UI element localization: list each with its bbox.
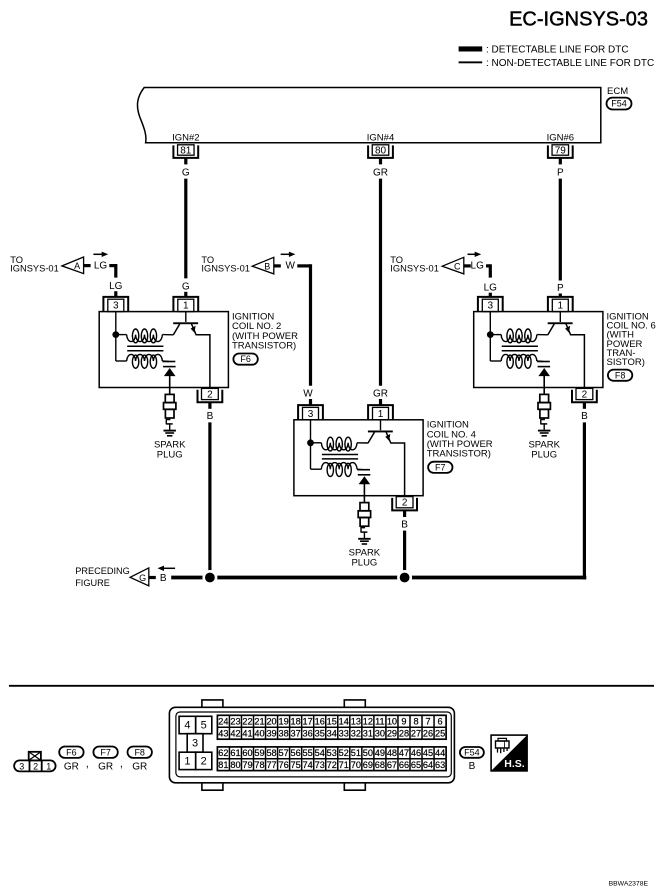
svg-text:75: 75: [291, 760, 301, 770]
secondary winding, coil No.6: [490, 360, 501, 362]
legend: detectable line for DTC: [459, 46, 483, 51]
svg-text:32: 32: [351, 729, 361, 739]
svg-text:F54: F54: [464, 747, 480, 757]
svg-text:13: 13: [351, 717, 361, 727]
wire stub into coil No.6 pin 3: [489, 293, 492, 297]
transformer core, coil No.2: [127, 345, 163, 347]
svg-text:: DETECTABLE LINE FOR DTC: : DETECTABLE LINE FOR DTC: [486, 44, 629, 55]
svg-text:72: 72: [327, 760, 337, 770]
svg-text:2: 2: [33, 761, 38, 771]
svg-text:2: 2: [582, 389, 588, 400]
svg-text:3: 3: [192, 738, 198, 750]
connector F7 label: [428, 462, 452, 473]
wire stub at connector C: [464, 264, 471, 267]
tiny connector sketch in H.S. icon: [496, 741, 510, 748]
svg-text:46: 46: [411, 748, 421, 758]
svg-text:IGN#6: IGN#6: [547, 132, 574, 143]
svg-text:34: 34: [327, 729, 337, 739]
svg-text:GR: GR: [373, 167, 388, 178]
ECM connector F54 housing: [169, 707, 454, 783]
direction arrow at connector C: [468, 253, 477, 255]
wire LG: connector C to coil No.6 pin 3: [489, 264, 492, 277]
svg-text:5: 5: [201, 720, 207, 732]
wire B: coil No.6 pin 2 to ground bus: [583, 422, 586, 579]
svg-text:W: W: [285, 260, 295, 271]
ECM connector pin grid group 2: [217, 747, 446, 771]
svg-text:26: 26: [423, 729, 433, 739]
svg-text:61: 61: [230, 748, 240, 758]
svg-text:G: G: [182, 281, 190, 292]
svg-text:LG: LG: [484, 282, 498, 293]
transformer core, coil No.4: [322, 454, 358, 456]
svg-text:47: 47: [399, 748, 409, 758]
housing tab (bottom): [344, 783, 365, 790]
coil No.4 pin 2: [392, 498, 417, 511]
coil No.2 pin 3: [103, 297, 128, 312]
wire gap-to-spark-plug, coil No.2: [169, 375, 171, 395]
wire stub below coil No.4 pin 2: [403, 510, 406, 517]
svg-text:TRANSISTOR): TRANSISTOR): [232, 341, 296, 352]
svg-text:65: 65: [411, 760, 421, 770]
wire stub below coil No.6 pin 2: [583, 402, 586, 409]
svg-text:PLUG: PLUG: [531, 449, 557, 460]
coil No.4 pin 1: [368, 405, 393, 420]
coil No.2 pin 1: [173, 297, 198, 312]
svg-text:G: G: [182, 167, 190, 178]
svg-text:79: 79: [555, 145, 567, 156]
svg-text:62: 62: [218, 748, 228, 758]
svg-text:PLUG: PLUG: [351, 557, 377, 568]
svg-text:60: 60: [242, 748, 252, 758]
svg-text:56: 56: [291, 748, 301, 758]
svg-text:ECM: ECM: [607, 86, 628, 97]
svg-text:80: 80: [230, 760, 240, 770]
svg-text:22: 22: [242, 717, 252, 727]
wire elbow from connector A: [109, 264, 116, 267]
wire stub below ECM pin 81: [184, 158, 187, 165]
svg-text:A: A: [74, 261, 80, 271]
svg-text:59: 59: [254, 748, 264, 758]
svg-text:25: 25: [435, 729, 445, 739]
svg-text:B: B: [264, 261, 270, 271]
svg-text:67: 67: [387, 760, 397, 770]
svg-text:1: 1: [46, 761, 51, 771]
spark plug, coil No.4: [360, 503, 369, 511]
primary winding, coil No.2: [116, 334, 127, 336]
svg-text:18: 18: [291, 717, 301, 727]
svg-text:55: 55: [303, 748, 313, 758]
svg-text:1: 1: [378, 409, 384, 420]
svg-text:64: 64: [423, 760, 433, 770]
wire B: coil No.4 pin 2 to ground bus: [403, 531, 406, 576]
svg-text:44: 44: [435, 748, 445, 758]
svg-text:53: 53: [327, 748, 337, 758]
svg-text:B: B: [401, 519, 408, 530]
svg-text:,: ,: [86, 758, 89, 770]
svg-text:63: 63: [435, 760, 445, 770]
svg-text:30: 30: [375, 729, 385, 739]
svg-text:12: 12: [363, 717, 373, 727]
svg-text:79: 79: [242, 760, 252, 770]
svg-text:H.S.: H.S.: [504, 758, 525, 770]
svg-text:3: 3: [113, 301, 119, 312]
svg-text:19: 19: [278, 717, 288, 727]
housing inner wall: [176, 712, 451, 777]
svg-text:77: 77: [266, 760, 276, 770]
coil No.6 pin 1: [548, 297, 573, 312]
svg-text:28: 28: [399, 729, 409, 739]
svg-text:IGNSYS-01: IGNSYS-01: [10, 264, 59, 274]
svg-text:10: 10: [387, 717, 397, 727]
svg-text:36: 36: [303, 729, 313, 739]
svg-text:51: 51: [351, 748, 361, 758]
svg-text:F8: F8: [615, 370, 626, 380]
svg-text:66: 66: [399, 760, 409, 770]
wire stub into coil No.4 pin 3: [309, 399, 312, 405]
wire stub into coil No.6 pin 1: [559, 294, 562, 298]
connector F54 label (bottom): [460, 747, 484, 758]
svg-text:FIGURE: FIGURE: [75, 578, 110, 588]
svg-text:B: B: [207, 411, 214, 422]
svg-text:58: 58: [266, 748, 276, 758]
svg-text:45: 45: [423, 748, 433, 758]
coil No.6 pin 2: [572, 390, 597, 403]
svg-text:40: 40: [254, 729, 264, 739]
svg-text:54: 54: [315, 748, 325, 758]
svg-text:6: 6: [438, 717, 443, 727]
svg-text:27: 27: [411, 729, 421, 739]
svg-text:81: 81: [180, 145, 192, 156]
junction: coil No.4 B wire on bus: [398, 571, 410, 583]
internal wire from pin 3, coil No.2: [115, 312, 117, 361]
ignition coil No. 6 (F8) box: [474, 312, 603, 388]
svg-text:78: 78: [254, 760, 264, 770]
svg-text:3: 3: [488, 301, 494, 312]
svg-text:G: G: [139, 573, 146, 583]
wire gap-to-spark-plug, coil No.4: [363, 483, 365, 503]
svg-text:69: 69: [363, 760, 373, 770]
direction arrow at connector A: [93, 253, 103, 255]
svg-text:73: 73: [315, 760, 325, 770]
svg-text:P: P: [557, 283, 564, 294]
spark gap, coil No.2: [163, 361, 176, 363]
spark plug, coil No.2: [165, 394, 174, 402]
wire stub below ECM pin 79: [559, 158, 562, 165]
connector F8 label: [608, 370, 632, 381]
svg-text:20: 20: [266, 717, 276, 727]
svg-text:SISTOR): SISTOR): [607, 357, 645, 368]
power transistor, coil No.4: [380, 420, 382, 430]
ECM box: [137, 88, 600, 143]
svg-text:74: 74: [303, 760, 313, 770]
ground (spark plug No.2): [164, 430, 176, 432]
svg-text:PLUG: PLUG: [157, 449, 183, 460]
svg-text:35: 35: [315, 729, 325, 739]
svg-text:31: 31: [363, 729, 373, 739]
svg-text:F7: F7: [100, 747, 111, 757]
svg-text:P: P: [557, 167, 564, 178]
internal wire from pin 3, coil No.4: [310, 420, 312, 469]
ECM connector pins 1-5 block: [179, 716, 196, 733]
emitter arrow, coil No.2: [191, 326, 196, 333]
spark gap, coil No.4: [357, 469, 370, 471]
connector F7 label (bottom): [93, 747, 117, 758]
wire stub into coil No.2 pin 3: [114, 291, 117, 297]
wire stub at connector B: [274, 264, 281, 267]
svg-text:F7: F7: [435, 462, 446, 472]
svg-text:GR: GR: [64, 762, 79, 773]
junction node inside coil No.2: [112, 331, 119, 338]
section divider: [9, 685, 654, 687]
junction node inside coil No.6: [487, 331, 494, 338]
svg-text:IGNSYS-01: IGNSYS-01: [201, 264, 250, 274]
connector F54 label (ECM): [607, 98, 632, 110]
svg-text:41: 41: [242, 729, 252, 739]
junction: coil No.2 B wire on bus: [204, 571, 216, 583]
svg-text:IGN#4: IGN#4: [367, 132, 394, 143]
wire G: ECM pin 81 to ignition coil No.2 pin 1: [184, 179, 187, 279]
svg-text:B: B: [581, 411, 588, 422]
power transistor, coil No.6: [559, 312, 561, 322]
svg-text:11: 11: [375, 717, 385, 727]
svg-text:BBWA2378E: BBWA2378E: [609, 880, 649, 887]
3-pin connector (coil harness): [14, 760, 56, 771]
svg-text:81: 81: [218, 760, 228, 770]
svg-text:B: B: [160, 573, 167, 584]
svg-text:F8: F8: [134, 747, 145, 757]
connector F6 label: [233, 354, 257, 365]
svg-text:23: 23: [230, 717, 240, 727]
svg-text:LG: LG: [94, 260, 108, 271]
svg-text:16: 16: [315, 717, 325, 727]
svg-text:PRECEDING: PRECEDING: [75, 566, 130, 576]
ground (spark plug No.6): [538, 430, 550, 432]
wire B: coil No.2 pin 2 to ground bus: [208, 422, 211, 575]
ground bus wire B (to preceding figure): [171, 576, 585, 580]
svg-text:70: 70: [351, 760, 361, 770]
svg-text:33: 33: [339, 729, 349, 739]
svg-text:2: 2: [201, 756, 207, 768]
svg-text:LG: LG: [109, 281, 123, 292]
svg-text:48: 48: [387, 748, 397, 758]
svg-text:3: 3: [19, 761, 24, 771]
connector F6 label (bottom): [59, 747, 83, 758]
svg-text:TRANSISTOR): TRANSISTOR): [427, 449, 491, 460]
wire stub at connector G: [149, 576, 156, 579]
wire elbow from connector C: [486, 264, 490, 267]
svg-text:14: 14: [339, 717, 349, 727]
coil No.2 pin 2: [198, 390, 223, 403]
svg-text:21: 21: [254, 717, 264, 727]
connector key (box with X): [29, 752, 41, 761]
svg-text:4: 4: [184, 720, 190, 732]
svg-text:43: 43: [218, 729, 228, 739]
wire GR: ECM pin 80 to ignition coil No.4 pin 1: [379, 179, 382, 386]
svg-text:F6: F6: [66, 747, 77, 757]
emitter arrow, coil No.4: [385, 434, 390, 441]
legend: non-detectable line for DTC: [459, 61, 483, 63]
wire gap-to-spark-plug, coil No.6: [543, 375, 545, 395]
wire stub into coil No.2 pin 1: [184, 292, 187, 297]
svg-text:37: 37: [291, 729, 301, 739]
direction arrow at connector G: [162, 567, 175, 569]
svg-text:7: 7: [425, 717, 430, 727]
svg-text:F54: F54: [611, 99, 627, 109]
svg-text:38: 38: [278, 729, 288, 739]
svg-text:24: 24: [218, 717, 228, 727]
connector F8 label (bottom): [128, 747, 152, 758]
spark plug, coil No.6: [540, 394, 549, 402]
coil No.4 pin 3: [298, 405, 323, 420]
housing tab (top): [344, 700, 365, 707]
wire stub below coil No.2 pin 2: [208, 402, 211, 409]
svg-text:68: 68: [375, 760, 385, 770]
transformer core, coil No.6: [502, 345, 538, 347]
svg-text:IGNSYS-01: IGNSYS-01: [390, 264, 439, 274]
svg-text:1: 1: [183, 301, 189, 312]
svg-text:IGN#2: IGN#2: [172, 132, 199, 143]
svg-text:49: 49: [375, 748, 385, 758]
svg-text:2: 2: [402, 498, 408, 509]
svg-text:50: 50: [363, 748, 373, 758]
svg-text:76: 76: [278, 760, 288, 770]
primary winding, coil No.6: [490, 334, 501, 336]
secondary winding, coil No.4: [311, 468, 322, 470]
svg-text:B: B: [469, 761, 476, 772]
ground (spark plug No.4): [358, 538, 370, 540]
svg-text:29: 29: [387, 729, 397, 739]
wire LG: connector A to coil No.2 pin 3: [114, 264, 117, 278]
housing tab (top): [202, 700, 223, 707]
wire W: connector B to coil No.4 pin 3: [309, 264, 312, 386]
wire P: ECM pin 79 to ignition coil No.6 pin 1: [559, 179, 562, 281]
svg-text:F6: F6: [240, 354, 251, 364]
wire stub at connector A: [84, 264, 91, 267]
svg-text:9: 9: [401, 717, 406, 727]
svg-text:W: W: [303, 389, 313, 400]
svg-text:39: 39: [266, 729, 276, 739]
svg-text:17: 17: [303, 717, 313, 727]
svg-text:71: 71: [339, 760, 349, 770]
H.S. (harness side) icon: [491, 735, 527, 771]
svg-text:1: 1: [558, 301, 564, 312]
wire stub into coil No.4 pin 1: [379, 399, 382, 405]
svg-text:42: 42: [230, 729, 240, 739]
svg-text:3: 3: [308, 409, 314, 420]
svg-text:,: ,: [120, 758, 123, 770]
internal wire from pin 3, coil No.6: [489, 312, 491, 361]
housing tab (bottom): [202, 783, 223, 790]
direction arrow at connector B: [281, 253, 291, 255]
svg-text:LG: LG: [471, 260, 485, 271]
svg-text:2: 2: [207, 389, 213, 400]
svg-text:1: 1: [184, 756, 190, 768]
svg-text:EC-IGNSYS-03: EC-IGNSYS-03: [509, 9, 648, 31]
svg-text:80: 80: [375, 145, 387, 156]
ECM connector pin grid group 1: [217, 715, 446, 739]
svg-text:C: C: [454, 261, 461, 271]
ignition coil No. 2 (F6) box: [99, 312, 228, 388]
wire stub below ECM pin 80: [379, 158, 382, 165]
svg-text:15: 15: [327, 717, 337, 727]
svg-text:GR: GR: [373, 389, 388, 400]
spark gap, coil No.6: [537, 361, 550, 363]
primary winding, coil No.4: [311, 442, 322, 444]
wire corner: coil No.6 B wire joins bus: [583, 576, 587, 580]
svg-text:52: 52: [339, 748, 349, 758]
junction node inside coil No.4: [307, 439, 314, 446]
wire elbow from connector B: [297, 264, 310, 267]
svg-text:57: 57: [278, 748, 288, 758]
svg-text:GR: GR: [132, 762, 147, 773]
svg-text:8: 8: [413, 717, 418, 727]
secondary winding, coil No.2: [116, 360, 127, 362]
coil No.6 pin 3: [478, 297, 503, 312]
emitter arrow, coil No.6: [565, 326, 570, 333]
svg-text:GR: GR: [98, 762, 113, 773]
power transistor, coil No.2: [185, 312, 187, 322]
svg-text:: NON-DETECTABLE LINE FOR DTC: : NON-DETECTABLE LINE FOR DTC: [486, 58, 654, 69]
ignition coil No. 4 (F7) box: [294, 420, 423, 496]
